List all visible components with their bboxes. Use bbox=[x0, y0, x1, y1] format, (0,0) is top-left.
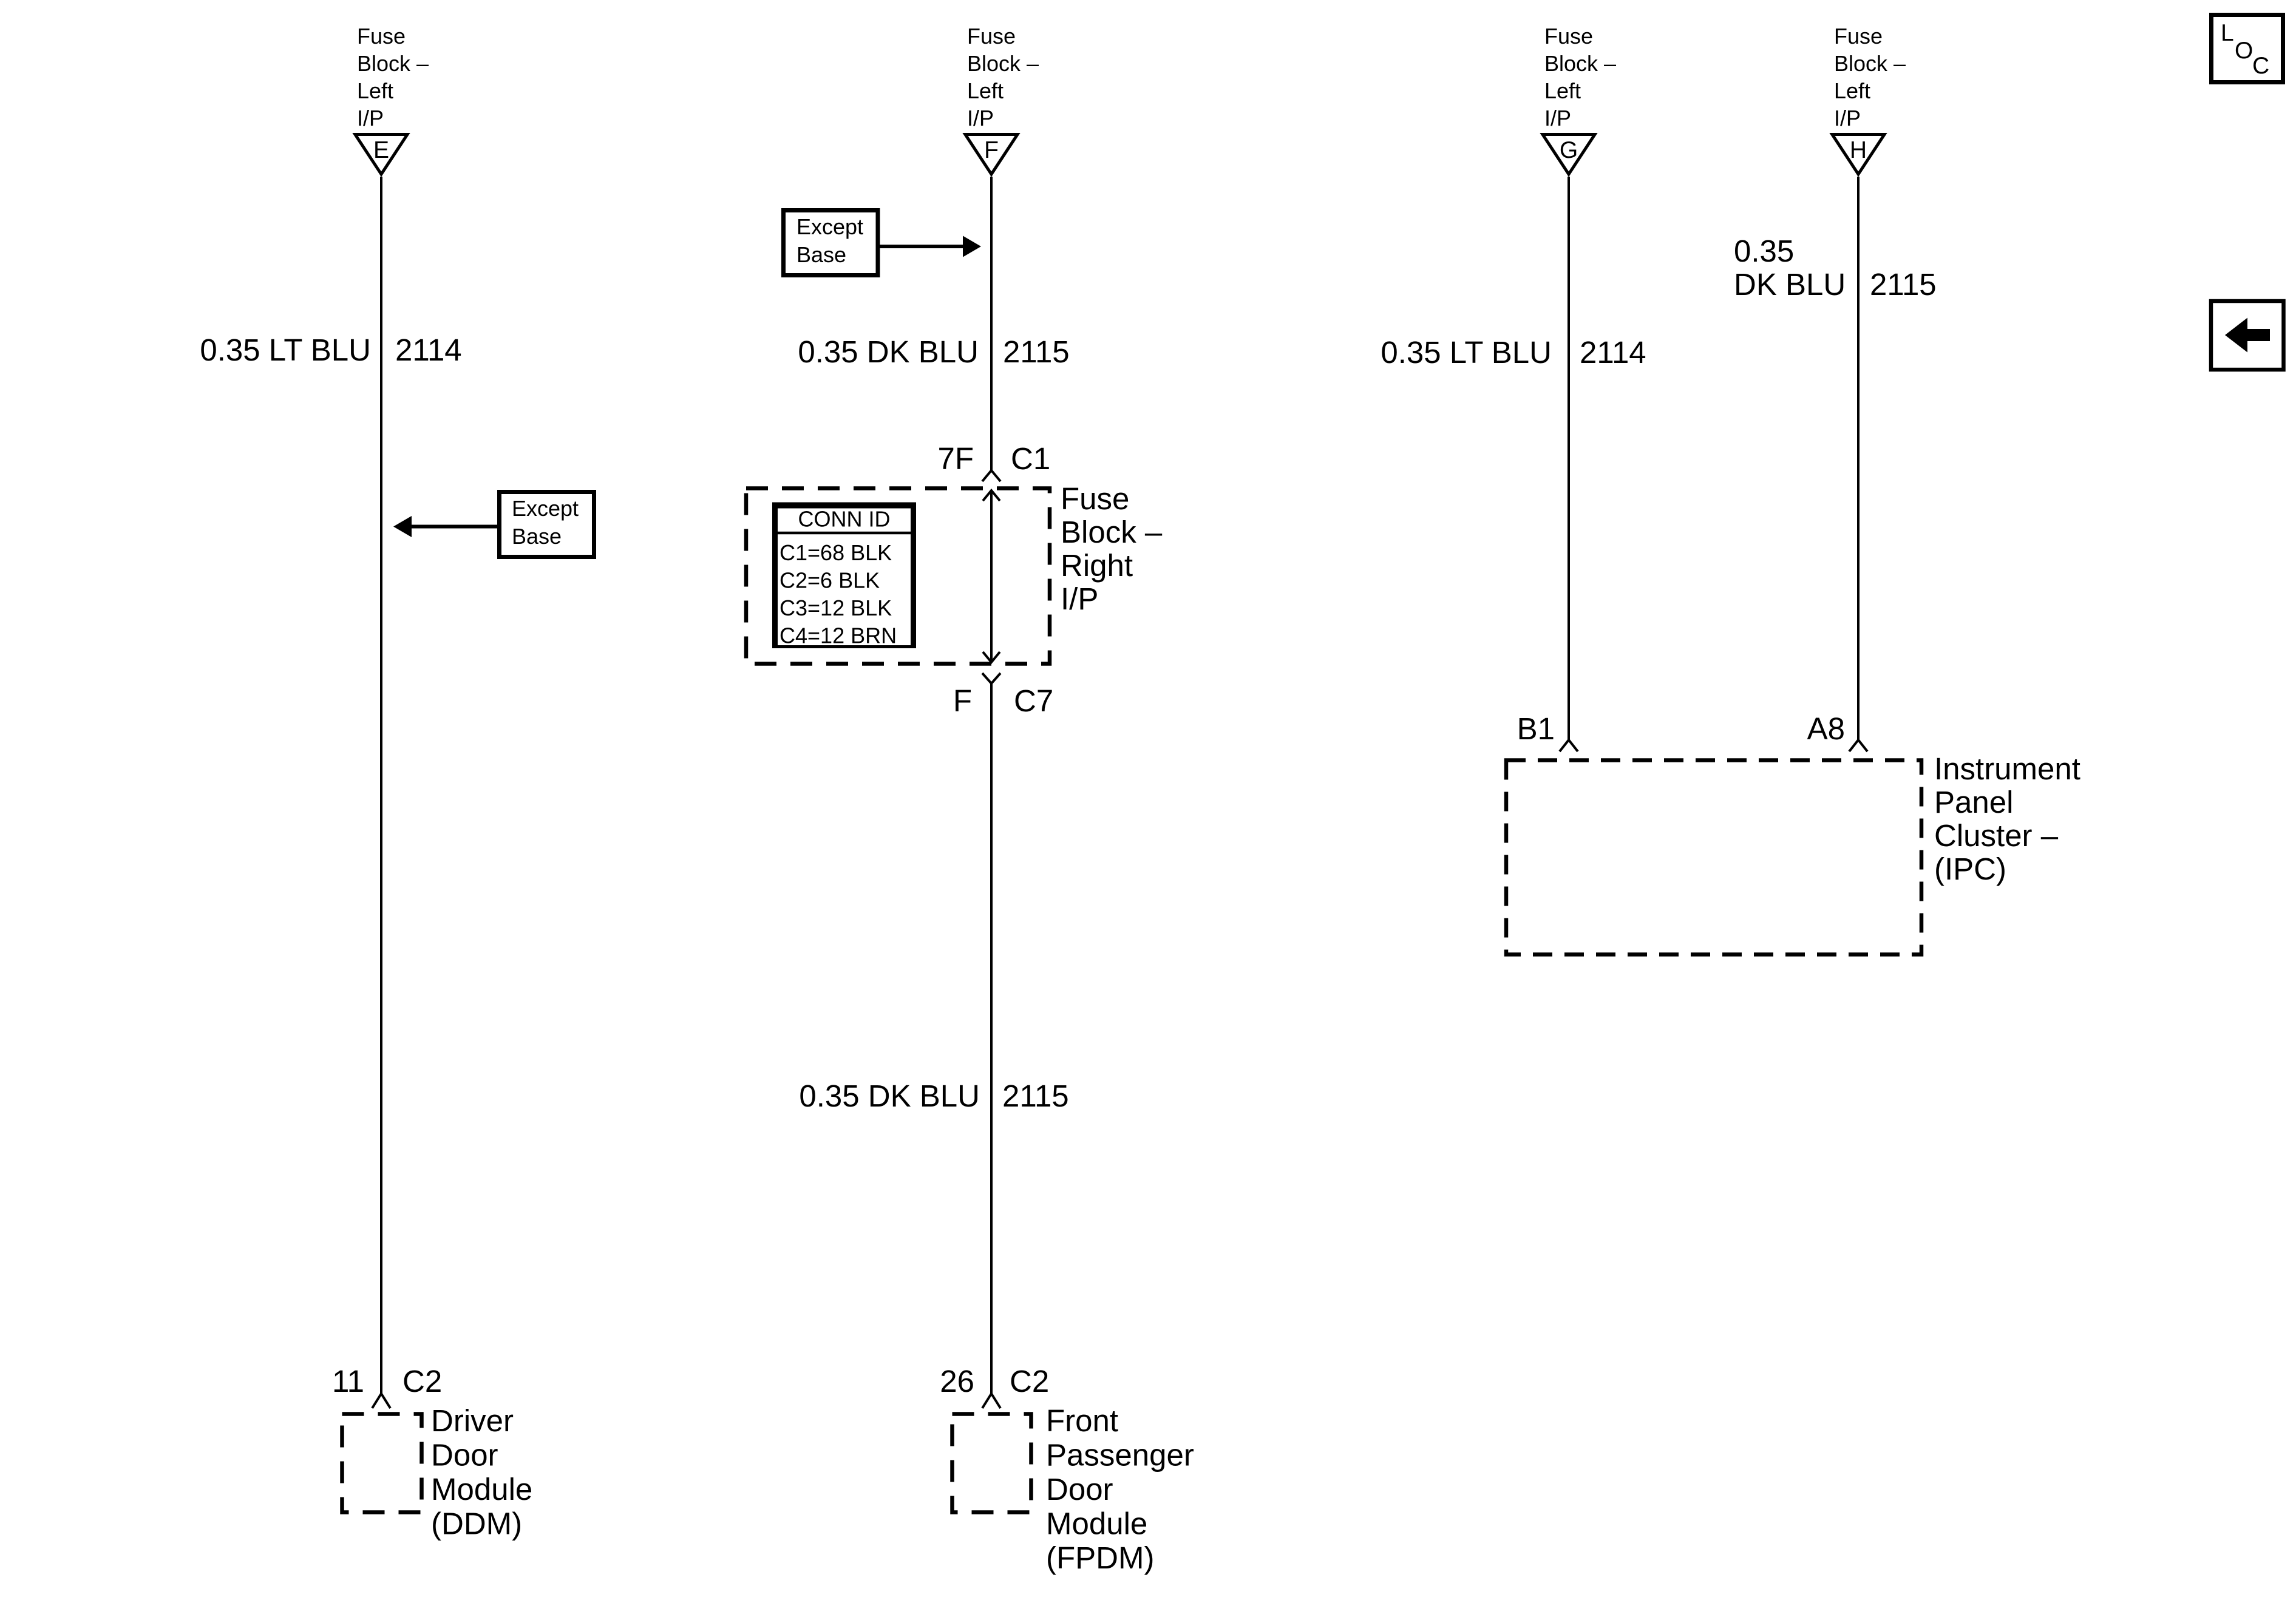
svg-text:(FPDM): (FPDM) bbox=[1046, 1541, 1154, 1575]
connector triangle F bbox=[965, 135, 1017, 175]
fuse block left I/P label above triangle H bbox=[1834, 24, 1906, 131]
svg-text:A8: A8 bbox=[1807, 711, 1845, 746]
svg-text:2115: 2115 bbox=[1002, 1079, 1069, 1113]
fuse block left I/P label above triangle G bbox=[1544, 24, 1616, 131]
svg-text:C2=6 BLK: C2=6 BLK bbox=[779, 568, 880, 593]
svg-text:0.35 DK BLU: 0.35 DK BLU bbox=[798, 334, 979, 369]
svg-text:Block –: Block – bbox=[1061, 515, 1163, 549]
connector Y at fuse block right top bbox=[982, 470, 1000, 481]
svg-text:Left: Left bbox=[1544, 78, 1581, 103]
svg-text:C1=68 BLK: C1=68 BLK bbox=[779, 540, 892, 565]
svg-text:Cluster –: Cluster – bbox=[1934, 818, 2059, 853]
svg-text:Right: Right bbox=[1061, 548, 1133, 583]
except base callout box (F) bbox=[784, 211, 878, 276]
fuse block left I/P label above triangle E bbox=[357, 24, 429, 131]
svg-text:O: O bbox=[2235, 38, 2253, 64]
svg-text:C7: C7 bbox=[1014, 683, 1053, 718]
svg-text:CONN ID: CONN ID bbox=[798, 507, 891, 532]
svg-text:Fuse: Fuse bbox=[1834, 24, 1883, 49]
wire segment circuit 2114 column E bbox=[380, 177, 382, 1394]
svg-text:Block –: Block – bbox=[1834, 51, 1906, 76]
IPC component label bbox=[1934, 751, 2080, 886]
svg-text:C: C bbox=[2252, 53, 2269, 79]
svg-text:C3=12 BLK: C3=12 BLK bbox=[779, 595, 892, 620]
svg-text:(IPC): (IPC) bbox=[1934, 852, 2006, 886]
svg-text:(DDM): (DDM) bbox=[431, 1507, 522, 1541]
svg-text:Driver: Driver bbox=[431, 1403, 514, 1438]
svg-text:Fuse: Fuse bbox=[967, 24, 1016, 49]
svg-text:Block –: Block – bbox=[357, 51, 429, 76]
svg-text:Fuse: Fuse bbox=[1061, 481, 1129, 516]
connector triangle E bbox=[355, 135, 407, 175]
wire label 0.35 LT BLU 2114 (E) bbox=[200, 333, 461, 367]
connector Y at DDM bbox=[372, 1394, 390, 1408]
svg-text:I/P: I/P bbox=[1834, 106, 1861, 131]
front passenger door module FPDM dashed box bbox=[953, 1414, 1031, 1513]
svg-text:2115: 2115 bbox=[1870, 267, 1937, 302]
svg-text:G: G bbox=[1560, 137, 1578, 163]
svg-text:11: 11 bbox=[332, 1364, 364, 1398]
instrument panel cluster IPC dashed box bbox=[1506, 761, 1921, 955]
svg-text:Fuse: Fuse bbox=[357, 24, 406, 49]
svg-text:C1: C1 bbox=[1011, 441, 1050, 476]
fuse block left I/P label above triangle F bbox=[967, 24, 1039, 131]
svg-text:I/P: I/P bbox=[357, 106, 384, 131]
svg-text:C4=12 BRN: C4=12 BRN bbox=[779, 623, 897, 648]
svg-text:2114: 2114 bbox=[1580, 335, 1646, 370]
svg-text:F: F bbox=[984, 137, 999, 163]
svg-text:L: L bbox=[2221, 20, 2234, 46]
svg-text:2115: 2115 bbox=[1003, 334, 1070, 369]
svg-text:C2: C2 bbox=[402, 1364, 442, 1398]
svg-text:Except: Except bbox=[512, 496, 579, 521]
svg-text:Left: Left bbox=[1834, 78, 1870, 103]
svg-text:Left: Left bbox=[357, 78, 393, 103]
wire label 0.35 LT BLU 2114 (G) bbox=[1381, 335, 1646, 370]
svg-text:Front: Front bbox=[1046, 1403, 1118, 1438]
arrow from except-base box to wire (F) bbox=[880, 236, 981, 257]
pin label 7F C1 (fuse block right) bbox=[937, 441, 1050, 476]
pin label 11 C2 (DDM) bbox=[332, 1364, 442, 1398]
svg-text:DK BLU: DK BLU bbox=[1734, 267, 1846, 302]
FPDM component label bbox=[1046, 1403, 1194, 1575]
wire label 0.35 DK BLU 2115 (H) bbox=[1734, 234, 1937, 302]
DDM component label bbox=[431, 1403, 532, 1541]
fuse block right I/P dashed box bbox=[746, 489, 1050, 664]
svg-text:0.35 LT BLU: 0.35 LT BLU bbox=[200, 333, 371, 367]
svg-text:2114: 2114 bbox=[395, 333, 462, 367]
left-arrow legend box bbox=[2211, 301, 2284, 370]
svg-text:Instrument: Instrument bbox=[1934, 751, 2080, 786]
wire segment circuit 2114 column G bbox=[1567, 177, 1570, 740]
svg-text:Passenger: Passenger bbox=[1046, 1438, 1194, 1473]
svg-text:Module: Module bbox=[431, 1472, 532, 1507]
connector Y at FPDM bbox=[982, 1394, 1000, 1408]
svg-text:Except: Except bbox=[796, 214, 863, 239]
svg-text:I/P: I/P bbox=[967, 106, 994, 131]
connector Y at IPC A8 bbox=[1849, 740, 1867, 751]
svg-text:7F: 7F bbox=[937, 441, 974, 476]
connector Y at IPC B1 bbox=[1560, 740, 1578, 751]
LOC legend box bbox=[2212, 15, 2283, 83]
connector Y below fuse block right bbox=[982, 673, 1000, 683]
svg-text:Block –: Block – bbox=[1544, 51, 1616, 76]
svg-text:H: H bbox=[1850, 137, 1867, 163]
svg-text:Base: Base bbox=[796, 242, 846, 267]
svg-text:I/P: I/P bbox=[1061, 581, 1098, 616]
svg-text:Base: Base bbox=[512, 524, 562, 549]
pin label 26 C2 (FPDM) bbox=[940, 1364, 1049, 1398]
internal arrow through fuse block right bbox=[983, 490, 1000, 662]
svg-text:F: F bbox=[953, 683, 972, 718]
svg-text:0.35 DK BLU: 0.35 DK BLU bbox=[799, 1079, 980, 1113]
svg-text:I/P: I/P bbox=[1544, 106, 1571, 131]
driver door module DDM dashed box bbox=[342, 1414, 422, 1513]
except base callout box (E) bbox=[500, 492, 594, 557]
svg-text:Door: Door bbox=[1046, 1472, 1113, 1507]
svg-text:E: E bbox=[373, 137, 389, 163]
svg-text:Fuse: Fuse bbox=[1544, 24, 1593, 49]
svg-text:Block –: Block – bbox=[967, 51, 1039, 76]
svg-text:0.35: 0.35 bbox=[1734, 234, 1794, 268]
arrow from except-base box to wire (E) bbox=[393, 516, 497, 537]
wire segment circuit 2115 lower column F bbox=[990, 683, 993, 1394]
svg-text:26: 26 bbox=[940, 1364, 974, 1398]
wire segment circuit 2115 column H bbox=[1857, 177, 1860, 740]
svg-text:Panel: Panel bbox=[1934, 785, 2013, 819]
svg-text:0.35 LT BLU: 0.35 LT BLU bbox=[1381, 335, 1552, 370]
pin label F C7 (fuse block right bottom) bbox=[953, 683, 1053, 718]
connector triangle H bbox=[1832, 135, 1884, 175]
wire label 0.35 DK BLU 2115 lower (F) bbox=[799, 1079, 1068, 1113]
svg-text:C2: C2 bbox=[1010, 1364, 1049, 1398]
CONN ID table bbox=[772, 503, 916, 648]
wire label 0.35 DK BLU 2115 upper (F) bbox=[798, 334, 1069, 369]
svg-text:B1: B1 bbox=[1517, 711, 1555, 746]
svg-text:Left: Left bbox=[967, 78, 1004, 103]
fuse block right I/P component label bbox=[1061, 481, 1163, 616]
svg-text:Module: Module bbox=[1046, 1507, 1147, 1541]
svg-text:Door: Door bbox=[431, 1438, 498, 1473]
wire segment circuit 2115 upper column F bbox=[990, 177, 993, 470]
connector triangle G bbox=[1543, 135, 1595, 175]
